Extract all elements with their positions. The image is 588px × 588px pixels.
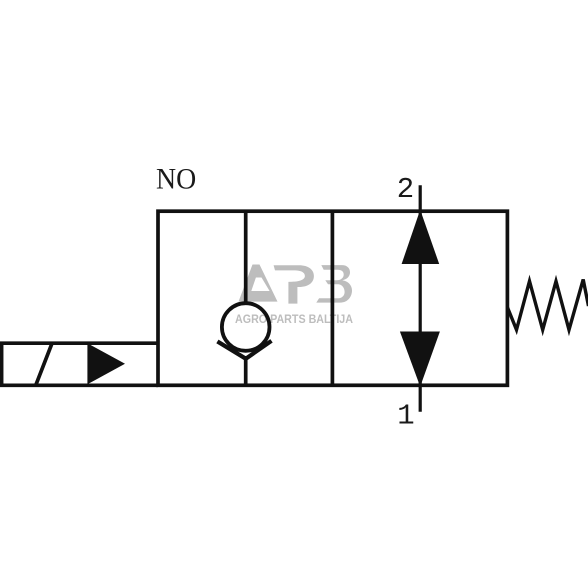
watermark letter P [274,265,314,303]
watermark letter A [239,265,278,302]
check valve upper wire [244,211,248,303]
divider line [331,211,335,385]
solenoid arrow triangle [87,343,125,384]
solenoid box [2,343,158,385]
wire between arrows [419,264,422,332]
svg-text:AGRO PARTS BALTIJA: AGRO PARTS BALTIJA [235,314,353,326]
check valve ball circle [222,303,270,351]
spring [508,280,588,330]
svg-text:NO: NO [156,164,196,196]
port 2 wire [419,185,422,264]
flow arrow down (triangle) [400,332,440,387]
svg-text:1: 1 [397,400,414,433]
solenoid diagonal stroke [36,343,52,385]
watermark logo APB [239,265,353,304]
check valve lower wire [244,356,248,385]
check valve seat V [217,341,271,359]
wire bottom-left extension [0,383,158,387]
flow arrow up (triangle) [402,210,440,264]
main valve box [158,211,507,385]
svg-text:2: 2 [397,173,414,206]
port 1 wire [419,332,422,412]
watermark letter B [316,265,352,303]
